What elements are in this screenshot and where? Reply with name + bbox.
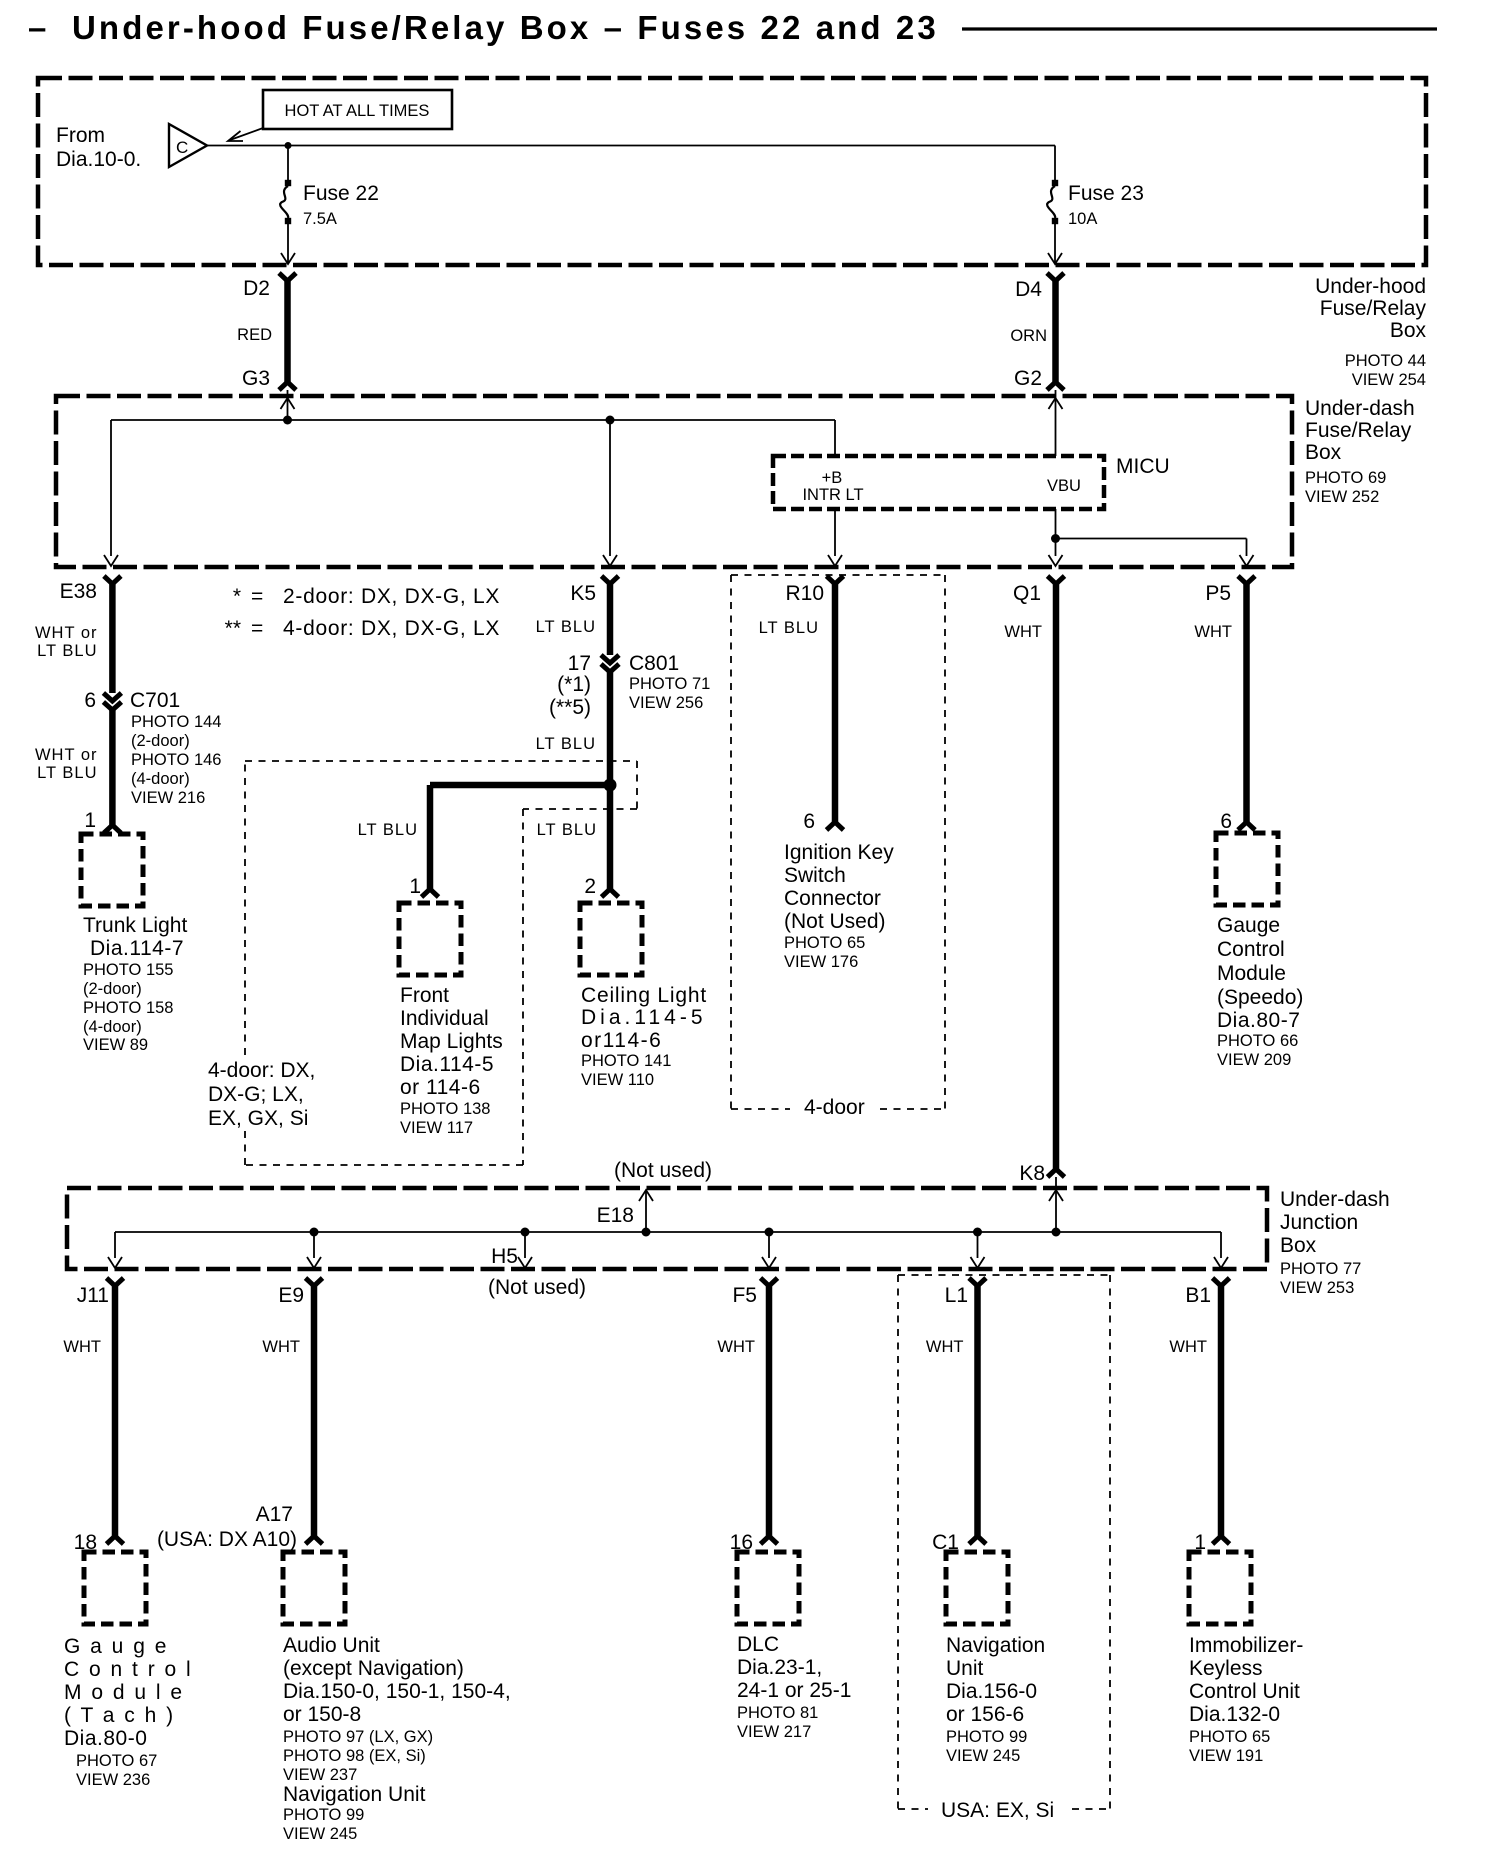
- svg-text:PHOTO 77: PHOTO 77: [1280, 1260, 1361, 1278]
- wire: hot bus: [207, 145, 1055, 147]
- svg-text:1: 1: [409, 875, 421, 898]
- svg-text:Q1: Q1: [1013, 582, 1041, 605]
- svg-text:4-door: DX,: 4-door: DX,: [208, 1059, 315, 1082]
- MICU box: [773, 456, 1104, 509]
- svg-text:Dia.80-7: Dia.80-7: [1217, 1009, 1300, 1032]
- svg-text:(Not used): (Not used): [488, 1276, 586, 1299]
- svg-text:C701: C701: [130, 689, 180, 712]
- svg-text:VIEW 217: VIEW 217: [737, 1723, 811, 1741]
- svg-text:Under-dash: Under-dash: [1280, 1188, 1390, 1211]
- wire fuse22 to D2: [287, 224, 289, 264]
- label HOT AT ALL TIMES: [263, 90, 452, 129]
- svg-text:PHOTO 99: PHOTO 99: [946, 1728, 1027, 1746]
- inline connector C801: [601, 655, 619, 663]
- junction dot F5: [765, 1228, 774, 1237]
- svg-text:PHOTO 44: PHOTO 44: [1345, 352, 1426, 370]
- junction dot E18: [642, 1228, 651, 1237]
- junction dot map light branch: [604, 779, 617, 792]
- svg-text:VIEW 245: VIEW 245: [946, 1747, 1020, 1765]
- svg-text:K8: K8: [1019, 1162, 1045, 1185]
- svg-text:**: **: [225, 617, 241, 640]
- svg-text:Immobilizer-: Immobilizer-: [1189, 1634, 1303, 1657]
- connector J11: [107, 1278, 124, 1286]
- connector E9: [306, 1278, 323, 1286]
- svg-text:E18: E18: [597, 1204, 634, 1227]
- svg-text:WHT: WHT: [1169, 1338, 1207, 1356]
- svg-text:Gauge: Gauge: [1217, 914, 1280, 937]
- svg-text:DLC: DLC: [737, 1633, 779, 1656]
- svg-text:Box: Box: [1305, 441, 1342, 464]
- svg-text:17: 17: [568, 652, 591, 675]
- svg-text:D4: D4: [1015, 278, 1042, 301]
- wire into G2: [1055, 390, 1057, 456]
- svg-text:F5: F5: [732, 1284, 757, 1307]
- svg-text:(*1): (*1): [557, 673, 591, 696]
- svg-text:PHOTO 65: PHOTO 65: [784, 934, 865, 952]
- svg-text:Audio Unit: Audio Unit: [283, 1634, 380, 1657]
- connector R10: [827, 576, 844, 584]
- fuse 23: [1054, 146, 1056, 181]
- svg-text:PHOTO 67: PHOTO 67: [76, 1752, 157, 1770]
- connector L1: [969, 1278, 986, 1286]
- svg-text:Dia.150-0, 150-1, 150-4,: Dia.150-0, 150-1, 150-4,: [283, 1680, 511, 1703]
- svg-text:(4-door): (4-door): [131, 770, 190, 788]
- svg-text:Keyless: Keyless: [1189, 1657, 1263, 1680]
- svg-text:4-door: 4-door: [804, 1096, 865, 1119]
- junction dot L1: [973, 1228, 982, 1237]
- wire fuse23 to D4: [1054, 224, 1056, 264]
- svg-text:Front: Front: [400, 984, 449, 1007]
- svg-text:=: =: [251, 617, 263, 640]
- svg-text:VIEW 254: VIEW 254: [1352, 371, 1426, 389]
- inline connector C701: [103, 693, 121, 701]
- connector D2/G3 wire RED: [279, 273, 296, 281]
- svg-text:2: 2: [584, 875, 596, 898]
- svg-text:(Not Used): (Not Used): [784, 910, 886, 933]
- svg-text:or 150-8: or 150-8: [283, 1703, 361, 1726]
- svg-text:PHOTO 144: PHOTO 144: [131, 713, 221, 731]
- wire into G3: [287, 390, 289, 420]
- svg-text:LT BLU: LT BLU: [358, 821, 418, 839]
- svg-text:VBU: VBU: [1047, 477, 1081, 495]
- wire VBU branch to P5: [1056, 538, 1247, 540]
- svg-text:or 114-6: or 114-6: [400, 1076, 481, 1099]
- svg-text:PHOTO 98 (EX, Si): PHOTO 98 (EX, Si): [283, 1747, 426, 1765]
- svg-text:E9: E9: [278, 1284, 304, 1307]
- svg-text:Under-hood: Under-hood: [1315, 275, 1426, 298]
- svg-text:PHOTO 99: PHOTO 99: [283, 1806, 364, 1824]
- svg-text:PHOTO 138: PHOTO 138: [400, 1100, 490, 1118]
- connector Q1 to K8 wire WHT: [1048, 576, 1065, 584]
- svg-text:LT BLU: LT BLU: [37, 764, 97, 782]
- svg-text:WHT: WHT: [717, 1338, 755, 1356]
- svg-text:A17: A17: [256, 1503, 293, 1526]
- svg-text:(2-door): (2-door): [131, 732, 190, 750]
- svg-text:Dia.10-0.: Dia.10-0.: [56, 148, 141, 171]
- arrow from HOT label to wire: [230, 128, 263, 140]
- component immobilizer-keyless control unit: [1189, 1552, 1251, 1624]
- svg-text:(4-door): (4-door): [83, 1018, 142, 1036]
- svg-text:Fuse 23: Fuse 23: [1068, 182, 1144, 205]
- svg-text:PHOTO 146: PHOTO 146: [131, 751, 221, 769]
- svg-text:–: –: [28, 9, 46, 46]
- svg-text:(USA: DX A10): (USA: DX A10): [157, 1528, 297, 1551]
- wire bus inside junction box: [115, 1231, 1221, 1233]
- svg-text:Under-dash: Under-dash: [1305, 397, 1415, 420]
- svg-text:Dia.80-0: Dia.80-0: [64, 1727, 147, 1750]
- svg-text:VIEW 252: VIEW 252: [1305, 488, 1379, 506]
- svg-text:Ignition Key: Ignition Key: [784, 841, 894, 864]
- connector F5: [761, 1278, 778, 1286]
- svg-text:VIEW 256: VIEW 256: [629, 694, 703, 712]
- junction dot K5 tap: [606, 416, 615, 425]
- svg-text:6: 6: [1220, 810, 1232, 833]
- svg-text:+B: +B: [822, 469, 843, 487]
- svg-text:WHT or: WHT or: [35, 746, 98, 764]
- svg-text:LT BLU: LT BLU: [536, 618, 596, 636]
- svg-text:EX, GX, Si: EX, GX, Si: [208, 1107, 308, 1130]
- svg-text:7.5A: 7.5A: [303, 210, 337, 228]
- junction dot VBU branch: [1051, 534, 1060, 543]
- svg-text:VIEW 216: VIEW 216: [131, 789, 205, 807]
- svg-text:(Speedo): (Speedo): [1217, 986, 1303, 1009]
- svg-text:WHT: WHT: [926, 1338, 964, 1356]
- junction dot K8: [1052, 1228, 1061, 1237]
- title rule: [962, 27, 1437, 30]
- svg-text:Fuse/Relay: Fuse/Relay: [1320, 297, 1427, 320]
- wire K8 into junction box: [1055, 1177, 1057, 1232]
- connector K5: [602, 576, 619, 584]
- svg-text:(2-door): (2-door): [83, 980, 142, 998]
- wire C701 to trunk light: [109, 710, 116, 825]
- svg-text:Navigation Unit: Navigation Unit: [283, 1783, 426, 1806]
- svg-text:Connector: Connector: [784, 887, 881, 910]
- component audio unit: [283, 1552, 345, 1624]
- junction dot fuse 22 tap: [285, 142, 292, 149]
- svg-text:VIEW 110: VIEW 110: [581, 1071, 654, 1089]
- svg-text:J11: J11: [77, 1284, 109, 1307]
- svg-text:Trunk Light: Trunk Light: [83, 914, 187, 937]
- svg-text:C o n t r o l: C o n t r o l: [64, 1658, 193, 1681]
- svg-text:Control: Control: [1217, 938, 1285, 961]
- 4-door models dashed outline: [245, 760, 637, 762]
- wire MICU INTR LT to R10: [834, 509, 836, 556]
- svg-text:VIEW 191: VIEW 191: [1189, 1747, 1263, 1765]
- wire to K5: [609, 420, 611, 556]
- svg-text:PHOTO 141: PHOTO 141: [581, 1052, 671, 1070]
- svg-text:PHOTO 66: PHOTO 66: [1217, 1032, 1298, 1050]
- svg-text:G2: G2: [1014, 367, 1042, 390]
- svg-text:WHT: WHT: [1194, 623, 1232, 641]
- connector P5: [1238, 576, 1255, 584]
- svg-text:Dia.23-1,: Dia.23-1,: [737, 1656, 822, 1679]
- svg-text:Under-hood Fuse/Relay Box – Fu: Under-hood Fuse/Relay Box – Fuses 22 and…: [72, 9, 939, 46]
- svg-text:*: *: [233, 585, 241, 608]
- under-dash junction box: [67, 1188, 1267, 1269]
- svg-text:or 156-6: or 156-6: [946, 1703, 1024, 1726]
- svg-text:C: C: [176, 138, 188, 157]
- svg-text:1: 1: [84, 809, 96, 832]
- svg-text:VIEW 253: VIEW 253: [1280, 1279, 1354, 1297]
- svg-text:( T a c h ): ( T a c h ): [64, 1704, 175, 1727]
- svg-text:VIEW 209: VIEW 209: [1217, 1051, 1291, 1069]
- svg-text:10A: 10A: [1068, 210, 1097, 228]
- svg-text:LT BLU: LT BLU: [536, 735, 596, 753]
- svg-text:Dia.156-0: Dia.156-0: [946, 1680, 1037, 1703]
- svg-text:K5: K5: [570, 582, 596, 605]
- wire to MICU +B: [834, 420, 836, 456]
- svg-text:PHOTO 81: PHOTO 81: [737, 1704, 818, 1722]
- wire C801 down to ceiling light: [607, 672, 614, 889]
- svg-text:C801: C801: [629, 652, 679, 675]
- svg-text:WHT: WHT: [262, 1338, 300, 1356]
- USA EX Si dashed outline: [898, 1274, 1110, 1276]
- svg-text:VIEW 176: VIEW 176: [784, 953, 858, 971]
- svg-text:PHOTO 155: PHOTO 155: [83, 961, 173, 979]
- svg-text:ORN: ORN: [1010, 327, 1047, 345]
- svg-text:P5: P5: [1205, 582, 1231, 605]
- svg-text:6: 6: [803, 810, 815, 833]
- svg-text:Fuse/Relay: Fuse/Relay: [1305, 419, 1412, 442]
- svg-text:Junction: Junction: [1280, 1211, 1358, 1234]
- svg-text:Box: Box: [1390, 319, 1427, 342]
- svg-text:VIEW 89: VIEW 89: [83, 1036, 148, 1054]
- under-dash fuse/relay box: [56, 396, 1292, 567]
- svg-text:Control Unit: Control Unit: [1189, 1680, 1300, 1703]
- component trunk light: [81, 834, 143, 906]
- junction dot H5: [521, 1228, 530, 1237]
- svg-text:WHT or: WHT or: [35, 624, 98, 642]
- svg-text:24-1 or 25-1: 24-1 or 25-1: [737, 1679, 851, 1702]
- svg-text:VIEW 237: VIEW 237: [283, 1766, 357, 1784]
- wire bus inside under-dash box: [111, 419, 835, 421]
- svg-text:6: 6: [84, 689, 96, 712]
- svg-text:USA: EX, Si: USA: EX, Si: [941, 1799, 1054, 1822]
- svg-text:Ceiling Light: Ceiling Light: [581, 984, 707, 1007]
- svg-text:4-door: DX, DX-G, LX: 4-door: DX, DX-G, LX: [283, 617, 500, 640]
- component ceiling light: [580, 903, 642, 975]
- svg-text:Fuse 22: Fuse 22: [303, 182, 379, 205]
- connector triangle C: [169, 124, 207, 167]
- component DLC: [737, 1552, 799, 1624]
- svg-text:E38: E38: [60, 580, 97, 603]
- svg-text:(except Navigation): (except Navigation): [283, 1657, 464, 1680]
- svg-text:PHOTO 97 (LX, GX): PHOTO 97 (LX, GX): [283, 1728, 433, 1746]
- svg-text:Module: Module: [1217, 962, 1286, 985]
- svg-text:Dia.114-5: Dia.114-5: [581, 1006, 707, 1029]
- svg-text:B1: B1: [1185, 1284, 1211, 1307]
- svg-text:PHOTO 158: PHOTO 158: [83, 999, 173, 1017]
- component gauge control module (speedo): [1216, 833, 1278, 905]
- svg-text:G a u g e: G a u g e: [64, 1635, 168, 1658]
- svg-text:RED: RED: [237, 326, 272, 344]
- svg-text:R10: R10: [785, 582, 824, 605]
- junction dot E9: [310, 1228, 319, 1237]
- svg-text:PHOTO 69: PHOTO 69: [1305, 469, 1386, 487]
- svg-text:VIEW 245: VIEW 245: [283, 1825, 357, 1843]
- svg-text:Individual: Individual: [400, 1007, 489, 1030]
- connector B1: [1213, 1278, 1230, 1286]
- svg-text:DX-G; LX,: DX-G; LX,: [208, 1083, 304, 1106]
- component navigation unit: [946, 1552, 1008, 1624]
- svg-text:PHOTO 71: PHOTO 71: [629, 675, 710, 693]
- svg-text:2-door: DX, DX-G, LX: 2-door: DX, DX-G, LX: [283, 585, 500, 608]
- svg-text:HOT AT ALL TIMES: HOT AT ALL TIMES: [285, 102, 430, 120]
- junction dot G3 bus: [283, 416, 292, 425]
- svg-text:VIEW 117: VIEW 117: [400, 1119, 473, 1137]
- svg-text:PHOTO 65: PHOTO 65: [1189, 1728, 1270, 1746]
- svg-text:Dia.114-7: Dia.114-7: [90, 937, 184, 960]
- svg-text:From: From: [56, 124, 105, 147]
- svg-text:WHT: WHT: [63, 1338, 101, 1356]
- wire branch to map lights: [430, 782, 610, 789]
- svg-text:Dia.114-5: Dia.114-5: [400, 1053, 494, 1076]
- svg-text:VIEW 236: VIEW 236: [76, 1771, 150, 1789]
- svg-text:Map Lights: Map Lights: [400, 1030, 503, 1053]
- svg-text:Switch: Switch: [784, 864, 846, 887]
- svg-text:WHT: WHT: [1004, 623, 1042, 641]
- svg-text:Box: Box: [1280, 1234, 1317, 1257]
- svg-text:H5: H5: [491, 1245, 518, 1268]
- under-hood fuse/relay box: [38, 78, 1426, 265]
- svg-text:(**5): (**5): [549, 696, 591, 719]
- svg-text:INTR LT: INTR LT: [802, 486, 863, 504]
- connector D4/G2 wire ORN: [1047, 273, 1064, 281]
- svg-text:Dia.132-0: Dia.132-0: [1189, 1703, 1280, 1726]
- svg-text:or114-6: or114-6: [581, 1029, 662, 1052]
- svg-text:M o d u l e: M o d u l e: [64, 1681, 184, 1704]
- svg-text:MICU: MICU: [1116, 455, 1170, 478]
- connector E38: [104, 576, 121, 584]
- component front individual map lights: [399, 903, 461, 975]
- svg-text:LT BLU: LT BLU: [537, 821, 597, 839]
- svg-text:L1: L1: [945, 1284, 968, 1307]
- component gauge control module (tach): [84, 1552, 146, 1624]
- svg-text:(Not used): (Not used): [614, 1159, 712, 1182]
- svg-text:Navigation: Navigation: [946, 1634, 1045, 1657]
- svg-text:D2: D2: [243, 277, 270, 300]
- fuse 22: [287, 146, 289, 181]
- svg-text:LT BLU: LT BLU: [759, 619, 819, 637]
- wire MICU VBU to Q1: [1055, 509, 1057, 556]
- svg-text:LT BLU: LT BLU: [37, 642, 97, 660]
- svg-text:=: =: [251, 585, 263, 608]
- svg-text:Unit: Unit: [946, 1657, 984, 1680]
- 4-door dashed outline (ignition key): [731, 574, 945, 576]
- svg-text:G3: G3: [242, 367, 270, 390]
